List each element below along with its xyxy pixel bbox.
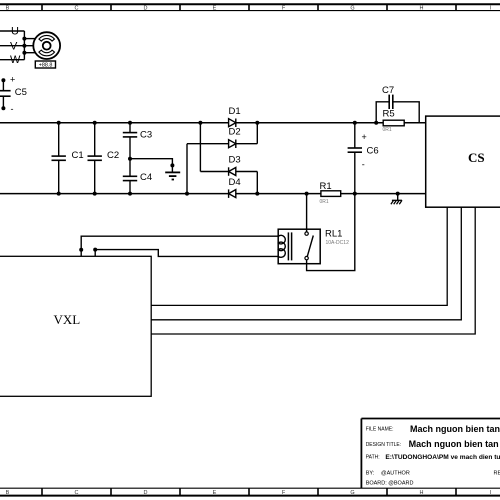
svg-text:D: D [144, 490, 148, 496]
svg-text:C3: C3 [140, 129, 152, 140]
svg-text:E:\TUDONGHOA\PM ve mach dien t: E:\TUDONGHOA\PM ve mach dien tu dong [385, 454, 500, 461]
IC block CS [426, 116, 500, 207]
svg-text:+: + [362, 132, 367, 142]
diode D1 [229, 119, 236, 128]
CS bottom pins to VXL [151, 207, 475, 334]
ground GND1 [165, 163, 180, 179]
svg-text:VXL: VXL [54, 312, 81, 327]
svg-text:-: - [11, 104, 14, 114]
svg-text:R5: R5 [383, 109, 395, 120]
svg-text:G: G [350, 490, 354, 496]
svg-text:0R1: 0R1 [320, 199, 329, 205]
svg-text:+88.8: +88.8 [39, 63, 53, 69]
top bus wire [0, 122, 426, 124]
diode D2 [187, 123, 257, 194]
svg-text:R1: R1 [320, 181, 332, 192]
svg-text:H: H [420, 490, 424, 496]
relay coil wire A [81, 236, 278, 250]
svg-text:V: V [10, 40, 18, 52]
svg-text:E: E [213, 490, 217, 496]
svg-text:H: H [420, 6, 424, 12]
svg-text:CS: CS [468, 150, 485, 165]
wire U [0, 31, 24, 60]
svg-text:Mach nguon bien tan: Mach nguon bien tan [410, 424, 500, 434]
capacitor C5 [2, 80, 4, 108]
relay switch top pin wire [306, 194, 308, 232]
svg-text:-: - [362, 160, 365, 170]
bottom bus wire [0, 193, 426, 195]
svg-text:D1: D1 [229, 106, 241, 117]
bottom band letters [6, 490, 492, 496]
svg-text:FILE NAME:: FILE NAME: [366, 426, 394, 432]
resistor R5 [383, 120, 404, 126]
svg-text:E: E [213, 6, 217, 12]
capacitor C6 [354, 123, 356, 194]
svg-text:C: C [75, 6, 79, 12]
sheet border bottom band [0, 488, 500, 495]
svg-text:C5: C5 [15, 87, 27, 98]
relay coil wire B [95, 250, 278, 257]
diode D4 [229, 189, 236, 198]
svg-text:C: C [75, 490, 79, 496]
top band letters [6, 6, 492, 12]
motor display box [35, 61, 55, 68]
svg-text:W: W [10, 54, 21, 66]
svg-text:U: U [11, 26, 19, 38]
svg-text:D2: D2 [229, 127, 241, 138]
C1 junction dots [57, 121, 61, 196]
diode D3 [200, 123, 257, 194]
VXL top pin stubs [81, 250, 95, 257]
IC block VXL [0, 256, 151, 396]
svg-text:RL1: RL1 [325, 228, 342, 239]
wire stubs into motor [24, 39, 35, 53]
svg-text:B: B [6, 490, 10, 496]
svg-text:C7: C7 [382, 85, 394, 96]
sheet border top band [0, 4, 500, 10]
svg-text:C2: C2 [107, 150, 119, 161]
resistor R1 [321, 191, 341, 197]
svg-text:C6: C6 [367, 146, 379, 157]
svg-text:@AUTHOR: @AUTHOR [381, 471, 410, 477]
svg-text:D3: D3 [229, 155, 241, 166]
switch [305, 232, 308, 235]
core lines [287, 232, 289, 260]
capacitor C4 [129, 159, 131, 194]
svg-text:C4: C4 [140, 172, 152, 183]
svg-text:+: + [10, 75, 15, 85]
svg-text:0R1: 0R1 [383, 127, 392, 133]
title block [361, 419, 500, 489]
C3/C4 junction dots [128, 121, 132, 196]
svg-text:10A-DC12: 10A-DC12 [326, 240, 350, 246]
svg-text:RE: RE [494, 471, 500, 477]
wire W [0, 59, 24, 61]
capacitor C7 parallel loop [376, 102, 419, 123]
svg-text:BY:: BY: [366, 471, 375, 477]
svg-text:D4: D4 [229, 177, 241, 188]
svg-text:DESIGN TITLE:: DESIGN TITLE: [366, 442, 401, 448]
svg-text:PATH:: PATH: [366, 454, 380, 460]
capacitor C3 [129, 123, 131, 159]
capacitor C1 [58, 123, 60, 194]
svg-text:BOARD: @BOARD: BOARD: @BOARD [366, 481, 414, 487]
wire V [0, 45, 24, 47]
C2 junction dots [93, 121, 97, 196]
svg-text:C1: C1 [72, 150, 84, 161]
junction dots motor feed [22, 37, 26, 55]
ground GND2 (chassis) [391, 192, 402, 205]
svg-text:G: G [350, 6, 354, 12]
top bus junction dots near diodes [198, 121, 259, 125]
relay switch bottom return wire [307, 194, 355, 271]
svg-text:Mach nguon bien tan: Mach nguon bien tan [409, 439, 499, 449]
svg-text:B: B [6, 6, 10, 12]
motor M body [33, 32, 60, 59]
coil arcs [278, 235, 285, 257]
capacitor C2 [94, 123, 96, 194]
relay RL1 [278, 229, 320, 264]
wire C3/C4 mid to ground [130, 159, 172, 172]
svg-text:D: D [144, 6, 148, 12]
